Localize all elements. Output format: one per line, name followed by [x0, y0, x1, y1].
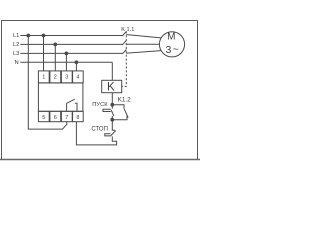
wire L1 bus — [20, 35, 122, 37]
junction dot N — [75, 61, 78, 64]
output contact seat — [75, 103, 77, 111]
svg-text:1: 1 — [42, 75, 45, 81]
terminal box 1 — [38, 71, 49, 83]
junction dot start top — [111, 103, 114, 106]
svg-text:5: 5 — [42, 115, 45, 121]
stop button actuator — [105, 134, 111, 136]
svg-text:3: 3 — [65, 75, 68, 81]
contact K1.1 blade L2 — [122, 40, 126, 45]
start button bottom stub — [111, 116, 113, 120]
terminal box 8 — [73, 111, 84, 121]
svg-text:ПУСК: ПУСК — [92, 102, 108, 108]
svg-text:L3: L3 — [13, 51, 19, 57]
contact K1.2 blade — [124, 109, 128, 118]
junction dot start bottom — [111, 118, 114, 121]
frame border — [2, 21, 198, 160]
terminal box 2 — [50, 71, 61, 83]
start button blade — [111, 110, 114, 116]
wire L3 to terminal 3 — [65, 53, 67, 71]
junction dot L2 — [54, 43, 57, 46]
stop button top stub — [112, 120, 115, 131]
junction dot L1-b — [42, 34, 45, 37]
svg-text:8: 8 — [76, 115, 79, 121]
bottom rule — [0, 159, 200, 161]
contact K1.1 linkage dashed — [122, 31, 127, 86]
wire terminal 8 to stop button — [76, 122, 116, 145]
terminal box 5 — [38, 111, 49, 121]
svg-text:M: M — [167, 32, 175, 43]
contact K1.2 branch top — [112, 105, 124, 109]
terminal box 4 — [73, 71, 84, 83]
svg-text:СТОП: СТОП — [91, 126, 108, 132]
stop button blade — [110, 131, 115, 137]
svg-text:L1: L1 — [13, 33, 19, 39]
terminal box 6 — [50, 111, 61, 121]
svg-text:7: 7 — [65, 115, 68, 121]
contact K1.1 blade L1 — [122, 32, 126, 37]
wire L1 down-left to terminal 7 — [28, 36, 67, 130]
svg-text:4: 4 — [76, 75, 79, 81]
wire N to coil K — [111, 62, 113, 80]
svg-text:3: 3 — [165, 44, 171, 56]
svg-text:K1.2: K1.2 — [118, 96, 132, 103]
wire L2 contact to motor — [126, 43, 159, 45]
svg-text:K: K — [107, 82, 115, 94]
terminal box 3 — [61, 71, 72, 83]
wire L1 contact to motor — [126, 35, 161, 38]
wire coil K to start button — [111, 93, 113, 105]
wire L1 to terminal 1 — [43, 36, 45, 71]
svg-text:6: 6 — [54, 115, 57, 121]
motor M circle — [159, 32, 184, 57]
relay coil K box — [102, 80, 122, 92]
wire N bus — [20, 61, 112, 63]
output contact blade — [67, 99, 75, 103]
svg-text:L2: L2 — [13, 42, 19, 48]
svg-text:K 1.1: K 1.1 — [121, 27, 134, 33]
svg-text:~: ~ — [173, 43, 179, 55]
junction dot L3 — [65, 52, 68, 55]
output contact stub 7 — [66, 103, 68, 111]
wire L2 to terminal 2 — [54, 44, 56, 71]
start button actuator — [103, 109, 111, 111]
wire L3 contact to motor — [126, 51, 161, 54]
junction dot L1-a — [27, 34, 30, 37]
svg-text:2: 2 — [54, 75, 57, 81]
wire L2 bus — [20, 43, 122, 45]
relay body box — [38, 83, 83, 111]
contact K1.2 branch bottom — [112, 115, 127, 120]
terminal box 7 — [61, 111, 72, 121]
svg-text:N: N — [15, 60, 19, 66]
wire L3 bus — [20, 52, 122, 54]
start button top stub — [111, 105, 113, 109]
contact K1.1 blade L3 — [122, 49, 126, 54]
wire N to terminal 4 — [75, 62, 77, 71]
